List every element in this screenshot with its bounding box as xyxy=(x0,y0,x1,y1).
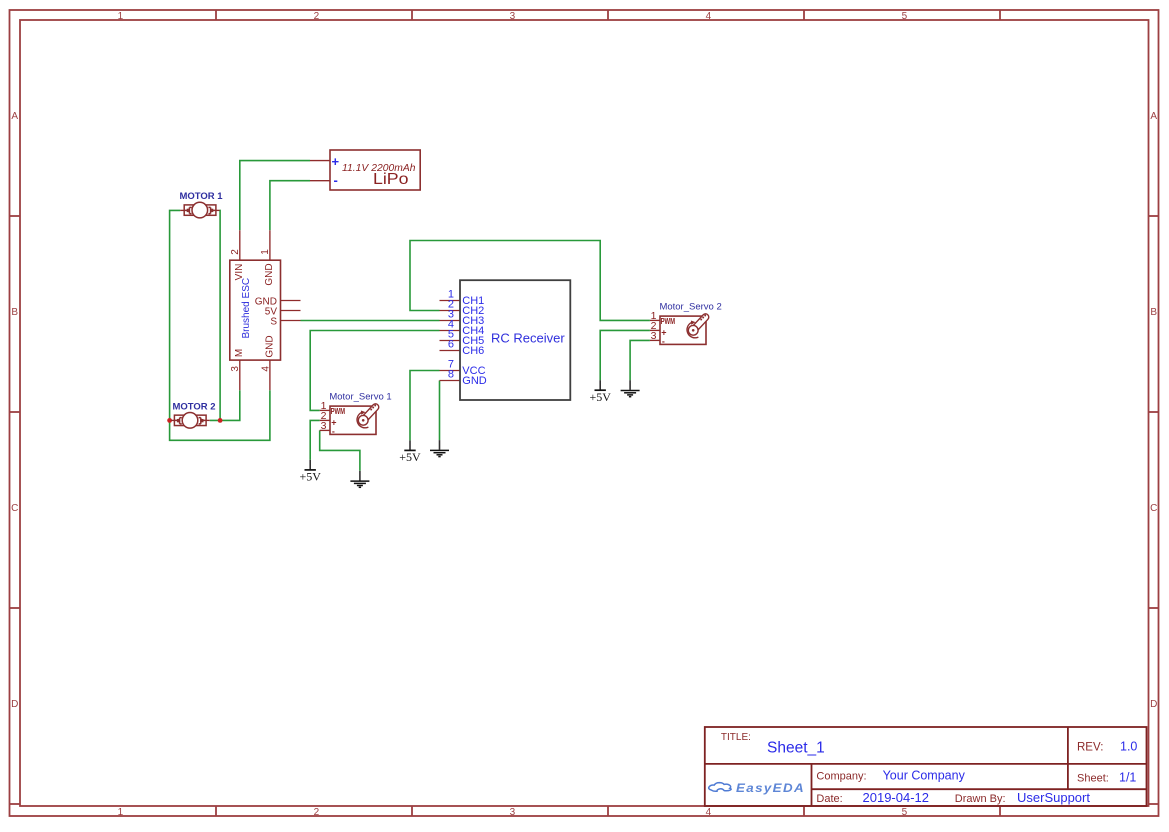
svg-text:MOTOR 2: MOTOR 2 xyxy=(172,402,215,413)
svg-text:Brushed ESC: Brushed ESC xyxy=(241,278,252,339)
svg-text:GND: GND xyxy=(264,335,275,357)
svg-text:MOTOR 1: MOTOR 1 xyxy=(179,191,223,202)
svg-text:Date:: Date: xyxy=(816,793,842,805)
svg-text:6: 6 xyxy=(448,339,454,351)
svg-text:5: 5 xyxy=(902,807,908,818)
svg-text:Sheet:: Sheet: xyxy=(1077,772,1109,784)
svg-text:1/1: 1/1 xyxy=(1119,771,1136,785)
svg-text:LiPo: LiPo xyxy=(373,171,409,188)
svg-text:S: S xyxy=(270,316,277,327)
svg-text:1: 1 xyxy=(260,249,271,255)
svg-text:A: A xyxy=(11,111,18,122)
svg-text:2019-04-12: 2019-04-12 xyxy=(863,790,930,805)
svg-text:Motor_Servo 1: Motor_Servo 1 xyxy=(329,391,391,402)
svg-text:C: C xyxy=(11,503,18,514)
svg-text:PWM: PWM xyxy=(661,317,676,326)
svg-text:C: C xyxy=(1150,503,1157,514)
svg-text:1: 1 xyxy=(118,807,124,818)
svg-text:D: D xyxy=(11,699,18,710)
svg-text:3: 3 xyxy=(230,366,241,372)
svg-text:+5V: +5V xyxy=(589,390,611,404)
svg-text:B: B xyxy=(11,307,18,318)
svg-text:+5V: +5V xyxy=(399,450,421,464)
svg-text:Motor_Servo 2: Motor_Servo 2 xyxy=(659,301,721,312)
svg-text:CH6: CH6 xyxy=(462,345,484,357)
svg-text:Drawn By:: Drawn By: xyxy=(955,793,1006,805)
svg-text:5: 5 xyxy=(902,11,908,22)
svg-text:3: 3 xyxy=(321,420,327,432)
svg-text:TITLE:: TITLE: xyxy=(721,732,751,743)
svg-text:1: 1 xyxy=(118,11,124,22)
svg-text:4: 4 xyxy=(706,11,712,22)
svg-text:-: - xyxy=(662,336,665,346)
svg-text:Sheet_1: Sheet_1 xyxy=(767,740,825,757)
svg-text:B: B xyxy=(1150,307,1157,318)
svg-text:8: 8 xyxy=(448,369,454,381)
svg-text:3: 3 xyxy=(510,807,516,818)
svg-text:+: + xyxy=(332,154,340,169)
svg-text:-: - xyxy=(332,426,335,436)
svg-text:REV:: REV: xyxy=(1077,741,1103,753)
svg-text:VIN: VIN xyxy=(234,264,245,281)
svg-text:2: 2 xyxy=(230,249,241,255)
svg-text:PWM: PWM xyxy=(331,407,346,416)
svg-text:3: 3 xyxy=(510,11,516,22)
svg-text:A: A xyxy=(1150,111,1157,122)
svg-text:RC Receiver: RC Receiver xyxy=(491,331,565,346)
svg-text:2: 2 xyxy=(314,807,320,818)
svg-text:3: 3 xyxy=(651,330,657,342)
svg-text:Your Company: Your Company xyxy=(883,769,966,783)
svg-text:-: - xyxy=(334,173,338,188)
svg-text:D: D xyxy=(1150,699,1157,710)
svg-text:2: 2 xyxy=(314,11,320,22)
svg-text:4: 4 xyxy=(706,807,712,818)
svg-text:1.0: 1.0 xyxy=(1120,740,1137,754)
svg-text:UserSupport: UserSupport xyxy=(1017,790,1090,805)
svg-text:M: M xyxy=(234,349,245,357)
svg-text:GND: GND xyxy=(264,263,275,285)
svg-text:+5V: +5V xyxy=(299,470,321,484)
svg-text:GND: GND xyxy=(462,375,487,387)
svg-text:EasyEDA: EasyEDA xyxy=(736,783,805,795)
svg-text:Company:: Company: xyxy=(816,770,866,782)
svg-text:4: 4 xyxy=(260,366,271,372)
